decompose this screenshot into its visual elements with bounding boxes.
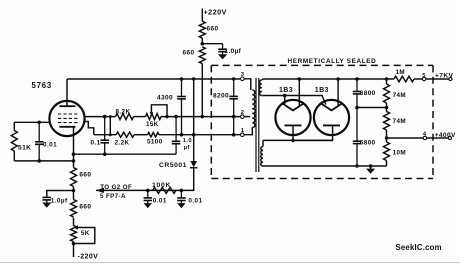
svg-text:6800: 6800 — [360, 90, 376, 97]
enclosure dashed top — [211, 64, 433, 66]
tube V2 1B3 envelope — [275, 100, 310, 135]
wire grid top — [14, 121, 50, 123]
resistor R13 74M — [384, 112, 390, 131]
svg-text:660: 660 — [79, 204, 91, 211]
node plateline/4300 — [180, 77, 184, 81]
capacitor C5 4300 — [181, 79, 183, 97]
V1 grid 1 dashes — [58, 122, 78, 124]
V3 plate bar — [323, 124, 340, 126]
resistor R8 100K — [153, 187, 177, 193]
node 8200/rail A — [232, 115, 236, 119]
resistor R4 8.2K — [116, 114, 134, 120]
wire +400V line — [387, 137, 424, 139]
node railA/0.1 — [103, 115, 107, 119]
wire rail A mid2 — [161, 116, 241, 118]
node diode/rail B — [192, 133, 196, 137]
node V3 fil/top bus — [336, 77, 340, 81]
svg-text:1B3: 1B3 — [315, 87, 329, 94]
node bottom/cathode — [37, 159, 41, 163]
node R2/rail A — [201, 115, 205, 119]
capacitor C3 0.1 — [104, 117, 106, 141]
wire filament winding top — [262, 79, 263, 80]
resistor R6 2.2K — [116, 132, 134, 137]
resistor R1 660 (upper) — [199, 21, 205, 38]
svg-text:15K: 15K — [146, 121, 159, 128]
svg-text:4: 4 — [423, 132, 427, 138]
transformer HV secondary — [261, 147, 263, 167]
wire railA-railB link — [109, 117, 111, 135]
node railA/1.0uf — [174, 115, 178, 119]
svg-text:1B3: 1B3 — [279, 87, 293, 94]
transformer core line 2 — [258, 78, 260, 172]
wire grid network bottom — [14, 160, 73, 162]
wire branch to C1 — [202, 43, 222, 45]
resistor R14 10M — [384, 142, 390, 161]
wire grid staircase — [84, 122, 93, 135]
wire rail B start — [94, 134, 116, 136]
V2 filament chevron — [283, 104, 304, 111]
enclosure dashed right — [432, 65, 434, 178]
capacitor C8 1.0uf — [43, 196, 52, 198]
node cathode/grid-return — [72, 159, 76, 163]
node G2/C6 — [146, 189, 150, 193]
wire 74M mid — [386, 103, 388, 112]
svg-text:51K: 51K — [18, 145, 31, 152]
V1 grid 3 dashes — [58, 113, 78, 115]
svg-text:5K: 5K — [81, 230, 90, 237]
wire T4 to +400V — [427, 137, 449, 139]
svg-text:5: 5 — [422, 73, 426, 79]
terminal 1 — [241, 133, 245, 137]
wire HV winding top — [262, 140, 264, 146]
terminal 2 — [241, 115, 245, 119]
wire 1M to T5 — [414, 78, 422, 80]
ground below C8 — [46, 200, 48, 203]
terminal 4 — [423, 136, 426, 139]
capacitor C6 0.01 — [147, 190, 149, 198]
wire 74M top lead — [386, 79, 388, 84]
node topbus/74M — [385, 77, 389, 81]
wire V2 filament right lead — [298, 79, 300, 106]
wire plate line — [67, 78, 241, 80]
wire diode line lower — [181, 168, 193, 191]
svg-text:74M: 74M — [393, 92, 406, 99]
svg-text:CR5001: CR5001 — [159, 162, 187, 169]
node wiper/rail A — [165, 115, 169, 119]
wire bottom bus — [263, 165, 387, 167]
node plateline/8200 — [232, 77, 236, 81]
transformer core line 1 — [255, 78, 257, 172]
wire to C8 — [47, 191, 74, 198]
V1 cathode bar — [59, 126, 75, 128]
wire V3 plate lead — [293, 125, 333, 140]
R5 wiper arrowhead — [150, 112, 154, 116]
svg-text:2: 2 — [241, 110, 245, 116]
node V2 fil/top bus — [298, 77, 302, 81]
enclosure dashed left — [210, 65, 212, 178]
wire 51K top lead — [13, 122, 15, 130]
wire rail A start — [85, 116, 116, 118]
wire rail C — [74, 153, 177, 155]
node 5K bottom — [72, 242, 76, 246]
frame bottom rule — [0, 262, 460, 264]
V3 filament chevron — [321, 104, 342, 111]
svg-text:+220V: +220V — [204, 8, 227, 17]
terminal 3 — [241, 77, 245, 81]
svg-text:5100: 5100 — [147, 139, 163, 146]
transformer primary winding — [252, 90, 255, 128]
node 6800/bottom bus — [355, 164, 359, 168]
svg-text:+7KV: +7KV — [435, 73, 453, 80]
svg-text:8.2K: 8.2K — [116, 108, 131, 115]
wire V1 cathode lead — [73, 127, 75, 168]
ground below C7 — [180, 201, 182, 204]
wire 51K bottom lead — [13, 151, 15, 161]
wire caps mid link — [357, 107, 387, 109]
wire T2 tap — [244, 116, 250, 118]
wire 10M bottom lead — [386, 161, 388, 167]
svg-text:1.0µf: 1.0µf — [225, 48, 242, 55]
capacitor C2 0.01 — [38, 122, 40, 142]
wire +220V lead — [201, 9, 203, 22]
V1 grid 2 dashes — [58, 117, 78, 119]
wire diode line upper — [193, 79, 195, 161]
node 6800 mid — [355, 106, 359, 110]
capacitor C4 1.0uf coupling — [175, 117, 177, 142]
node cathode/rail C — [72, 152, 76, 156]
svg-text:1: 1 — [241, 128, 245, 134]
node +7KV terminal — [449, 77, 452, 80]
svg-text:8200: 8200 — [213, 93, 229, 100]
node plateline/diode — [192, 77, 196, 81]
wire G2 line — [96, 189, 181, 191]
resistor R12 74M — [384, 84, 390, 103]
svg-text:SeekIC.com: SeekIC.com — [396, 243, 442, 252]
node 4300/rail B — [180, 133, 184, 137]
capacitor C11 6800 — [356, 108, 358, 142]
node 74M junction — [385, 106, 389, 110]
ground below C6 — [147, 201, 149, 204]
svg-text:HERMETICALLY SEALED: HERMETICALLY SEALED — [288, 58, 377, 65]
node topbus/6800 — [355, 77, 359, 81]
node link/rail A — [109, 115, 112, 118]
node +400V junction — [385, 136, 389, 140]
svg-text:-220V: -220V — [78, 254, 99, 261]
svg-text:100K: 100K — [152, 182, 171, 189]
wire filament top bus — [263, 78, 394, 80]
wire R10 to 5K — [73, 218, 75, 226]
V2 plate bar — [285, 124, 302, 126]
wire T5 to +7KV — [426, 78, 449, 80]
R11 wiper arrowhead — [74, 225, 78, 229]
svg-text:660: 660 — [183, 50, 195, 57]
wire V1 plate riser — [66, 79, 68, 106]
wire rail B mid — [134, 134, 147, 136]
capacitor C1 1.0uf — [222, 44, 224, 50]
capacitor C7 0.01 — [180, 190, 182, 198]
ground internal — [370, 166, 372, 169]
svg-text:µf: µf — [184, 145, 190, 151]
node bias junction — [72, 189, 76, 193]
node V2 plate/bus — [291, 139, 295, 143]
wire T1 to primary — [244, 128, 252, 135]
V1 plate bar — [59, 105, 75, 107]
resistor R7 5100 — [148, 133, 160, 137]
wire filament lower bus — [263, 96, 326, 105]
tube V3 1B3 envelope — [314, 100, 349, 135]
svg-text:660: 660 — [79, 172, 91, 179]
wire R2 to rail A — [201, 64, 203, 117]
resistor R3 51K — [11, 131, 17, 152]
transformer filament secondary — [259, 80, 262, 96]
R5 wiper strap — [151, 105, 167, 117]
wire rail A mid1 — [134, 116, 146, 118]
node railC/0.1 — [103, 152, 107, 156]
svg-text:1M: 1M — [396, 69, 406, 76]
svg-text:4300: 4300 — [157, 94, 173, 101]
node +400V terminal — [448, 136, 451, 139]
node G2/C7 — [180, 189, 184, 193]
node 8200/rail B — [232, 133, 236, 137]
enclosure dashed bottom — [211, 178, 433, 180]
wire 74M to +400 node — [386, 130, 388, 142]
resistor R15 1M — [394, 76, 414, 82]
tube V1 5763 envelope — [49, 101, 84, 136]
node junction 660/660 — [201, 42, 205, 46]
svg-text:74M: 74M — [393, 118, 406, 125]
resistor R5 15K pot — [146, 114, 162, 120]
svg-text:TO G2 OF: TO G2 OF — [100, 184, 132, 191]
wire R9 to junction — [73, 187, 75, 200]
wire plate bus — [263, 139, 333, 141]
wire V2 plate lead — [292, 125, 294, 140]
svg-text:5 FP7-A: 5 FP7-A — [100, 193, 126, 200]
wire T3 to primary — [244, 79, 251, 90]
svg-text:0.01: 0.01 — [153, 198, 167, 205]
svg-text:10M: 10M — [393, 149, 406, 156]
ground below C1 — [222, 52, 224, 55]
svg-text:3: 3 — [241, 72, 245, 78]
capacitor C9 8200 — [233, 79, 235, 96]
node bus/ground — [369, 164, 373, 168]
resistor R10 660 (bias) — [71, 200, 77, 218]
wire rail B to T1 — [159, 134, 241, 136]
svg-text:660: 660 — [207, 26, 219, 33]
wire to -220V — [73, 242, 75, 258]
resistor R9 660 (cathode) — [71, 168, 77, 187]
node V2 fil/lower bus — [283, 94, 287, 98]
svg-text:+400V: +400V — [435, 132, 456, 139]
svg-text:2.2K: 2.2K — [115, 139, 130, 146]
svg-text:1.0µf: 1.0µf — [51, 198, 68, 205]
svg-text:0.01: 0.01 — [188, 198, 202, 205]
R11 strap box — [74, 228, 95, 244]
terminal 5 — [422, 77, 425, 80]
svg-text:0.01: 0.01 — [43, 141, 57, 148]
svg-text:5763: 5763 — [32, 81, 53, 90]
svg-text:1.0: 1.0 — [183, 138, 192, 144]
wire V3 filament right lead — [337, 79, 339, 106]
arrowhead to G2 — [96, 188, 104, 193]
capacitor C10 6800 — [356, 79, 358, 92]
svg-text:0.1: 0.1 — [91, 140, 101, 147]
wire filament winding bottom — [262, 95, 263, 97]
wire R1 to junction — [201, 38, 203, 44]
resistor R11 5K pot — [71, 226, 77, 242]
resistor R2 660 (lower) — [199, 47, 205, 64]
node link/rail B — [109, 133, 112, 136]
node grid/cap 0.01 — [37, 121, 41, 125]
svg-text:6800: 6800 — [360, 139, 376, 146]
diode CR5001 — [190, 161, 197, 167]
wire V2 filament left lead — [284, 96, 286, 105]
